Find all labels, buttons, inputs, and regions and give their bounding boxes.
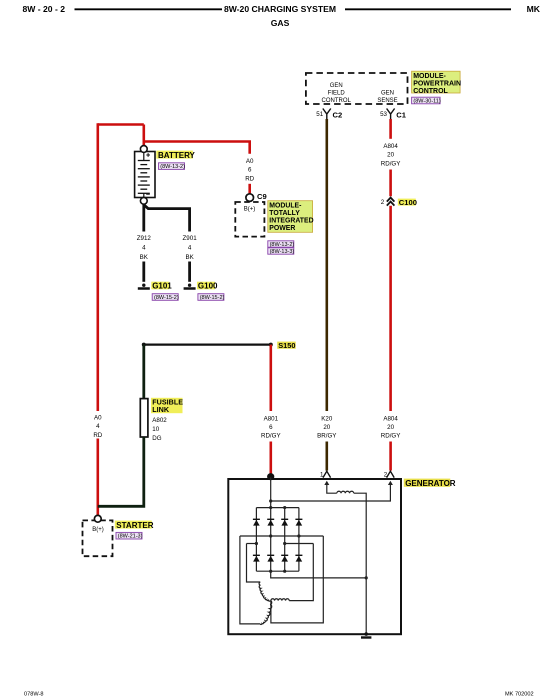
connector C2 Y symbol xyxy=(323,109,331,120)
label STARTER xyxy=(115,521,152,529)
svg-text:B(+): B(+) xyxy=(92,527,104,533)
svg-text:CONTROL: CONTROL xyxy=(413,88,448,95)
wire: Z901 lower segment xyxy=(188,262,191,282)
svg-text:GAS: GAS xyxy=(271,18,290,28)
svg-text:A0: A0 xyxy=(246,158,254,165)
svg-text:MODULE-: MODULE- xyxy=(269,202,302,209)
junction dots top bus xyxy=(269,506,272,509)
label MODULE-POWERTRAIN CONTROL xyxy=(412,71,461,93)
phase stub col3 xyxy=(285,543,314,545)
svg-text:(8W-13-2): (8W-13-2) xyxy=(160,164,185,170)
svg-text:(8W-21-3): (8W-21-3) xyxy=(118,534,143,540)
module TIPM dashed box xyxy=(235,202,264,237)
svg-text:STARTER: STARTER xyxy=(116,521,153,530)
pin1 internal lead and field coil xyxy=(327,485,337,494)
label FUSIBLE LINK xyxy=(151,398,183,413)
wire: red vertical to battery positive xyxy=(143,125,146,147)
junction dots phase stubs xyxy=(255,542,258,545)
junction dot field return xyxy=(365,576,368,579)
battery plus sign xyxy=(146,153,150,157)
generator box xyxy=(228,479,401,634)
pin2 internal arrowhead xyxy=(388,481,393,485)
link 8W-13-2 under TIPM xyxy=(268,241,294,247)
diode top col4 xyxy=(295,519,302,526)
connector C1 Y symbol xyxy=(387,109,395,120)
svg-text:RD: RD xyxy=(93,432,102,439)
svg-text:BR/GY: BR/GY xyxy=(317,433,336,440)
rectifier bottom bus xyxy=(256,570,299,572)
stator leg left inner xyxy=(247,544,261,583)
svg-text:POWERTRAIN: POWERTRAIN xyxy=(413,80,461,87)
stator center tap xyxy=(271,536,323,623)
svg-text:GEN: GEN xyxy=(330,83,343,89)
svg-text:MK: MK xyxy=(527,4,541,14)
wire: branch to Z901 xyxy=(144,205,190,232)
svg-text:(8W-15-2): (8W-15-2) xyxy=(154,295,179,301)
battery positive terminal circle xyxy=(140,146,147,153)
wire: A804 lower segment xyxy=(389,442,392,471)
label MODULE-TOTALLY INTEGRATED POWER xyxy=(268,201,313,233)
label S150 xyxy=(277,342,296,349)
wire: A804 below C100 xyxy=(389,206,392,411)
wire: battery feed red horizontal top xyxy=(98,123,144,126)
label G101 xyxy=(151,282,169,290)
B+ internal vertical xyxy=(270,477,272,508)
svg-text:20: 20 xyxy=(387,152,394,159)
svg-text:RD/GY: RD/GY xyxy=(381,160,401,167)
svg-text:53: 53 xyxy=(380,111,387,118)
rectifier columns xyxy=(255,508,257,572)
wire: red vertical A0 4 RD upper segment xyxy=(97,123,100,411)
connector C100 inline chevrons xyxy=(387,198,395,206)
pin1 internal arrowhead xyxy=(324,481,329,485)
svg-text:2: 2 xyxy=(381,199,385,206)
svg-text:RD/GY: RD/GY xyxy=(261,433,281,440)
phase bus line 1 xyxy=(240,535,323,537)
stator leg left outer xyxy=(240,536,260,624)
label BATTERY xyxy=(156,151,193,159)
generator case ground xyxy=(364,632,368,636)
stator winding lower-left xyxy=(260,601,272,625)
svg-text:LINK: LINK xyxy=(152,405,170,414)
svg-text:K20: K20 xyxy=(321,415,333,422)
link 8W-13-2 under battery xyxy=(159,163,185,170)
DC negative link to ground xyxy=(271,571,367,578)
wire: A804 segment above C100 xyxy=(389,170,392,197)
svg-text:Z901: Z901 xyxy=(183,235,198,242)
starter dashed box xyxy=(83,520,113,556)
wire: A801 red from S150 to generator upper xyxy=(269,345,272,411)
svg-text:B(+): B(+) xyxy=(244,207,256,213)
label C100 xyxy=(398,199,416,206)
svg-text:DG: DG xyxy=(152,435,161,442)
svg-text:G101: G101 xyxy=(152,282,172,291)
svg-text:(8W-13-2): (8W-13-2) xyxy=(270,242,295,248)
svg-text:A801: A801 xyxy=(264,415,279,422)
link 8W-30-11 under PCM xyxy=(412,97,441,104)
svg-text:MODULE-: MODULE- xyxy=(413,73,446,80)
wire: A801 lower segment xyxy=(269,442,272,475)
link 8W-21-3 under starter xyxy=(116,532,142,539)
svg-text:MK 702002: MK 702002 xyxy=(505,692,534,698)
header rule right xyxy=(345,8,511,10)
svg-text:BK: BK xyxy=(140,254,149,261)
junction dots bottom bus xyxy=(269,570,272,573)
svg-text:20: 20 xyxy=(387,424,394,431)
stator winding right xyxy=(271,599,289,601)
diode bottom col2 xyxy=(267,555,274,562)
svg-text:4: 4 xyxy=(188,245,192,252)
module PCM dashed box xyxy=(306,73,408,104)
svg-text:20: 20 xyxy=(323,424,330,431)
ground G101 xyxy=(142,284,145,287)
connector C9 circle xyxy=(246,194,254,202)
svg-text:POWER: POWER xyxy=(269,225,295,232)
svg-text:BK: BK xyxy=(185,254,194,261)
svg-text:A802: A802 xyxy=(152,417,167,424)
junction dot sense/B+ xyxy=(269,499,272,502)
link 8W-15-2 under G101 xyxy=(152,294,178,301)
svg-text:C2: C2 xyxy=(333,111,343,120)
svg-text:A804: A804 xyxy=(383,415,398,422)
svg-text:4: 4 xyxy=(142,245,146,252)
wire: battery negative down xyxy=(142,204,145,231)
diode bottom col3 xyxy=(281,555,288,562)
wire: A804 segment below C1 xyxy=(389,119,392,139)
svg-text:GEN: GEN xyxy=(381,90,394,96)
svg-text:4: 4 xyxy=(96,423,100,430)
ground G100 xyxy=(188,284,191,287)
battery B1 symbol xyxy=(135,152,155,198)
label GENERATOR xyxy=(404,479,451,487)
wire: red segment above C9 xyxy=(248,184,251,194)
svg-text:8W - 20 - 2: 8W - 20 - 2 xyxy=(23,4,66,14)
fusible link fuse body xyxy=(140,399,148,437)
wire: fusible link black wire lower to starter junction xyxy=(98,437,144,506)
svg-text:BATTERY: BATTERY xyxy=(158,151,196,160)
wire: K20 BR/GY upper segment xyxy=(325,119,328,411)
wire: Z912 lower segment xyxy=(142,262,145,282)
svg-text:CONTROL: CONTROL xyxy=(322,98,352,104)
svg-text:Z912: Z912 xyxy=(137,235,152,242)
svg-text:SENSE: SENSE xyxy=(377,98,397,104)
battery minus sign xyxy=(146,193,150,195)
svg-text:S150: S150 xyxy=(278,341,295,350)
stator leg right xyxy=(289,544,313,601)
rectifier top bus xyxy=(256,507,299,509)
phase stub col1 xyxy=(247,543,257,545)
svg-text:(8W-30-11): (8W-30-11) xyxy=(413,99,440,105)
svg-text:51: 51 xyxy=(316,111,323,118)
svg-text:6: 6 xyxy=(269,424,273,431)
wire: fusible link black wire upper xyxy=(142,345,145,399)
svg-text:G100: G100 xyxy=(198,282,218,291)
svg-text:C1: C1 xyxy=(396,111,406,120)
diode bottom col1 xyxy=(253,555,260,562)
battery negative terminal circle xyxy=(140,197,147,204)
svg-text:RD: RD xyxy=(245,175,254,182)
svg-text:8W-20 CHARGING SYSTEM: 8W-20 CHARGING SYSTEM xyxy=(224,4,336,14)
diode top col3 xyxy=(281,519,288,526)
svg-text:C100: C100 xyxy=(399,198,417,207)
splice S150 xyxy=(142,343,146,347)
link 8W-13-3 under TIPM xyxy=(268,248,294,254)
label G100 xyxy=(197,282,215,290)
svg-text:INTEGRATED: INTEGRATED xyxy=(269,217,313,224)
svg-text:A0: A0 xyxy=(94,415,102,422)
junction dots phase line 1 xyxy=(269,534,272,537)
svg-text:GENERATOR: GENERATOR xyxy=(405,479,456,488)
svg-text:C9: C9 xyxy=(257,192,267,201)
svg-text:FIELD: FIELD xyxy=(328,90,346,96)
svg-text:078W-8: 078W-8 xyxy=(24,692,44,698)
svg-text:RD/GY: RD/GY xyxy=(381,433,401,440)
wire: K20 BR/GY lower segment xyxy=(325,442,328,471)
diode top col1 xyxy=(253,519,260,526)
sense line to pin2 xyxy=(271,485,391,501)
svg-text:A804: A804 xyxy=(383,143,398,150)
wire: red horizontal battery to C9 xyxy=(144,142,250,154)
generator B+ terminal dot xyxy=(267,473,274,480)
svg-text:(8W-15-2): (8W-15-2) xyxy=(200,295,225,301)
svg-text:6: 6 xyxy=(248,167,252,174)
link 8W-15-2 under G100 xyxy=(198,294,224,301)
svg-text:TOTALLY: TOTALLY xyxy=(269,210,300,217)
diode top col2 xyxy=(267,519,274,526)
svg-text:10: 10 xyxy=(152,426,159,433)
svg-text:(8W-13-3): (8W-13-3) xyxy=(270,249,295,255)
wire: red vertical A0 4 RD lower segment to starter xyxy=(97,439,100,516)
diode bottom col4 xyxy=(295,555,302,562)
header rule left xyxy=(75,8,223,10)
starter terminal circle xyxy=(94,515,101,522)
stator winding upper-left xyxy=(259,582,270,601)
